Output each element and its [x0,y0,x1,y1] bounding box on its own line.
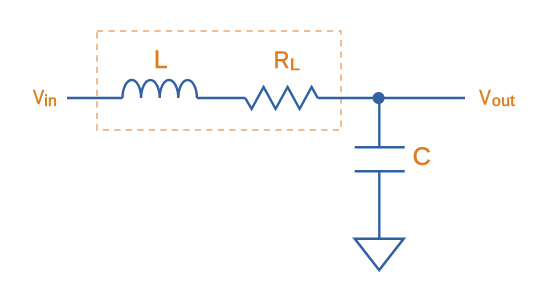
svg-text:out: out [492,93,515,110]
svg-text:R: R [274,46,290,73]
svg-text:V: V [479,87,491,110]
svg-text:in: in [44,93,57,110]
svg-text:C: C [413,143,431,171]
svg-text:L: L [154,47,168,74]
svg-text:V: V [33,86,45,109]
svg-text:L: L [290,55,300,74]
